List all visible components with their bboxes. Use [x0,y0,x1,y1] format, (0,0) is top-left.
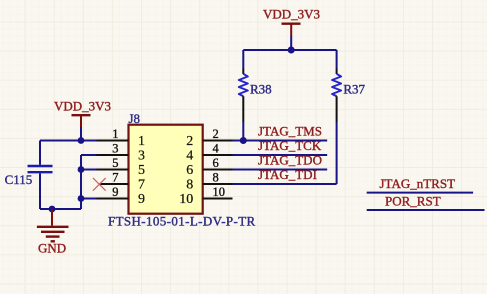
svg-text:GND: GND [38,241,66,256]
wire nTRST [367,192,473,194]
junction top [288,47,295,54]
pin numbers inside right [179,134,193,207]
pin 8 stub [203,183,233,185]
svg-text:1: 1 [112,127,118,141]
svg-text:JTAG_TMS: JTAG_TMS [258,123,322,138]
pin 9 stub [97,198,129,200]
svg-text:4: 4 [186,149,193,164]
connector J8 body [129,125,203,214]
svg-text:9: 9 [138,192,145,207]
svg-text:6: 6 [213,156,219,170]
wire TMS [233,140,328,142]
wire POR_RST [367,209,485,211]
svg-text:4: 4 [213,141,220,155]
svg-text:C115: C115 [5,172,33,187]
wire VDD stem to bus [290,36,292,51]
svg-text:2: 2 [186,134,193,149]
wire gnd row [40,208,81,210]
pin 7 stub [99,183,128,185]
svg-text:5: 5 [138,163,145,178]
power port VDD_3V3 (top) [263,7,320,36]
junction pin5 [78,166,85,173]
capacitor C115 [5,141,53,210]
svg-text:J8: J8 [129,111,141,126]
svg-text:6: 6 [186,163,193,178]
svg-text:10: 10 [213,185,226,199]
svg-text:FTSH-105-01-L-DV-P-TR: FTSH-105-01-L-DV-P-TR [108,213,256,228]
svg-text:JTAG_TCK: JTAG_TCK [258,138,322,153]
junction pin1 [78,137,85,144]
wire VDD left stem [80,127,82,141]
pin numbers outside left [112,127,118,199]
svg-text:7: 7 [138,178,145,193]
pin 4 stub [203,154,233,156]
wire pin9 row [81,198,97,200]
wire pin5 row [81,169,97,171]
svg-text:JTAG_nTRST: JTAG_nTRST [380,176,456,191]
ground GND [37,209,69,256]
svg-text:8: 8 [213,170,219,184]
pin numbers outside right [213,127,226,199]
wire top horizontal [243,49,336,51]
svg-text:7: 7 [112,170,118,184]
svg-text:9: 9 [112,185,118,199]
wire pin3 row [81,154,97,156]
pin 5 stub [97,169,129,171]
pin 2 stub [203,140,233,142]
power port VDD_3V3 (left) [54,98,111,127]
svg-text:POR_RST: POR_RST [385,194,441,209]
svg-text:VDD_3V3: VDD_3V3 [54,98,111,113]
pin 3 stub [97,154,129,156]
svg-text:R38: R38 [250,81,272,96]
wire TDO [233,169,328,171]
junction gnd [49,206,56,213]
wire left bus [80,155,82,209]
pin 6 stub [203,169,233,171]
junction TMS/R38 [240,137,247,144]
svg-text:3: 3 [112,141,118,155]
svg-text:1: 1 [138,134,145,149]
svg-text:2: 2 [213,127,219,141]
no-connect X on pin 7 [93,178,106,191]
svg-text:JTAG_TDO: JTAG_TDO [258,152,322,167]
wire pin1 row [40,140,97,142]
svg-text:8: 8 [186,178,193,193]
pin 10 stub [203,198,233,200]
svg-text:5: 5 [112,156,118,170]
svg-text:10: 10 [179,192,193,207]
junction pin9 [78,195,85,202]
svg-text:JTAG_TDI: JTAG_TDI [258,167,317,182]
wire TDI [233,183,337,185]
resistor R38 [239,50,272,141]
pin 1 stub [97,140,129,142]
svg-text:VDD_3V3: VDD_3V3 [263,7,320,22]
svg-text:3: 3 [138,149,145,164]
resistor R37 [332,50,365,184]
svg-text:R37: R37 [343,81,365,96]
wire TCK [233,154,328,156]
pin numbers inside left [138,134,145,207]
